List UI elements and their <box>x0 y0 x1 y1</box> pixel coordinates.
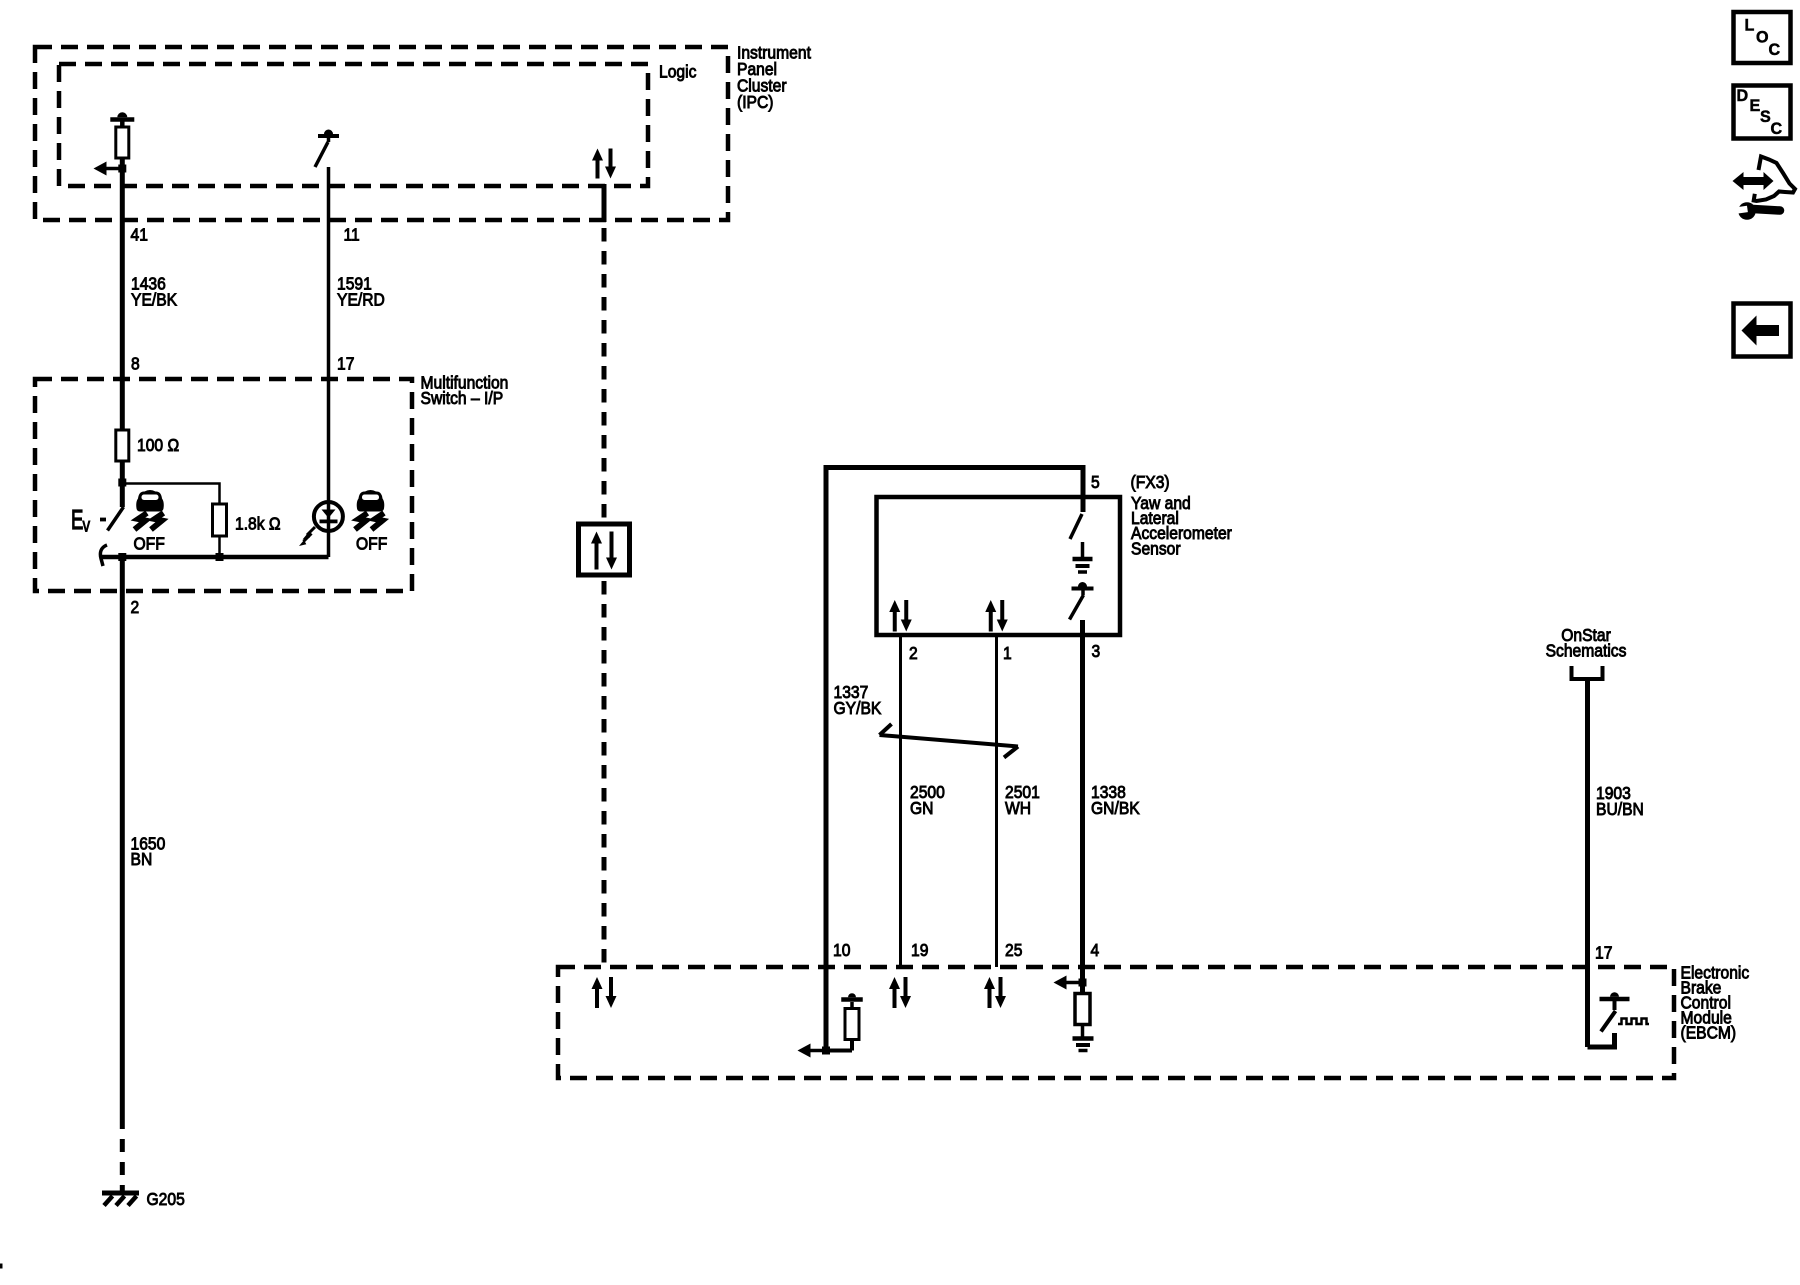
svg-text:OFF: OFF <box>134 533 165 553</box>
svg-text:E: E <box>1750 96 1761 115</box>
LED to bottom rail <box>327 531 331 557</box>
svg-text:L: L <box>1745 15 1755 34</box>
svg-text:19: 19 <box>911 940 928 960</box>
svg-text:Schematics: Schematics <box>1546 640 1627 660</box>
PWM squiggle <box>1618 1019 1649 1025</box>
svg-text:GN: GN <box>910 798 933 818</box>
in-line connector box with data arrows <box>579 524 630 575</box>
resistor R-IPC (indicator driver) <box>116 127 129 158</box>
bottom rail wire <box>101 555 329 560</box>
LED indicator <box>314 502 343 531</box>
svg-text:C: C <box>1771 119 1783 138</box>
EBCM serial data arrows <box>595 987 599 1008</box>
svg-text:Switch – I/P: Switch – I/P <box>421 388 504 408</box>
svg-text:GN/BK: GN/BK <box>1091 798 1140 818</box>
svg-text:11: 11 <box>344 224 360 244</box>
svg-text:17: 17 <box>337 353 354 373</box>
svg-text:(FX3): (FX3) <box>1131 472 1170 492</box>
svg-text:(IPC): (IPC) <box>737 92 774 112</box>
svg-text:WH: WH <box>1005 798 1031 818</box>
twisted pair crossover arrow <box>880 735 1019 747</box>
svg-text:1: 1 <box>1003 643 1012 663</box>
resistor 100 ohm <box>120 379 125 430</box>
traction OFF switch lever <box>108 507 124 531</box>
wiring repair icon: double arrow <box>1741 177 1766 185</box>
wire from logic box to IPC edge <box>602 184 607 222</box>
resistor 1.8k ohm <box>213 504 227 536</box>
wire 1.8k resistor to bottom rail <box>218 536 221 557</box>
wire 1650 BN <box>120 557 125 1128</box>
ground G205 <box>102 1191 139 1196</box>
svg-text:Logic: Logic <box>659 61 696 81</box>
Yaw sensor solid box <box>877 497 1121 635</box>
wiring repair icon: connector outline <box>1754 157 1795 202</box>
wire resistor to junction <box>120 158 125 220</box>
svg-text:100 Ω: 100 Ω <box>137 435 179 455</box>
IPC switch fixed contact (bar with bump) <box>318 134 339 138</box>
svg-text:17: 17 <box>1595 942 1612 962</box>
left arrow (signal out) in IPC <box>105 167 123 171</box>
yaw data arrows pin1 <box>989 610 993 632</box>
back arrow icon box <box>1734 304 1791 357</box>
svg-text:10: 10 <box>833 940 850 960</box>
serial data dashed wire (IPC to EBCM) <box>602 222 607 524</box>
LOC icon box <box>1734 12 1791 63</box>
wire pin 10 left run <box>824 465 829 967</box>
yaw internal switch lever (pin3) <box>1070 595 1084 620</box>
yaw internal contact (bar with bump) <box>1072 587 1094 591</box>
svg-text:4: 4 <box>1091 940 1100 960</box>
svg-text:GY/BK: GY/BK <box>834 698 883 718</box>
svg-text:O: O <box>1756 27 1769 46</box>
EBCM pins 19/25 data arrows <box>893 987 897 1008</box>
junction dot <box>118 165 126 173</box>
svg-text:C: C <box>1769 40 1781 59</box>
wire 2500 GN <box>899 635 902 967</box>
svg-text:S: S <box>1760 107 1771 126</box>
dashed lead to ground <box>120 1128 125 1191</box>
EBCM pin17 PWM switch <box>1588 1033 1615 1047</box>
svg-text:25: 25 <box>1005 940 1022 960</box>
svg-text:(EBCM): (EBCM) <box>1681 1022 1737 1042</box>
wire stub B+ to resistor R-IPC <box>120 120 125 128</box>
yaw internal switch lever (pin5) <box>1070 514 1082 539</box>
wire 1591 YE/RD (IPC 11 to MFS 17) <box>327 167 331 502</box>
B+ voltage symbol (bar with bump) <box>110 117 134 122</box>
svg-text:41: 41 <box>131 224 148 244</box>
yaw data arrows pin2 <box>893 610 897 632</box>
serial data up/down arrows in IPC <box>596 159 600 179</box>
EBCM dashed box <box>558 967 1674 1078</box>
off-page connector bracket <box>1572 666 1603 679</box>
junction dot node <box>118 479 126 487</box>
Logic dashed box <box>59 64 648 186</box>
IPC switch lever <box>315 142 328 167</box>
DESC icon box <box>1734 86 1791 139</box>
EBCM pin10 circuit <box>824 967 829 1051</box>
svg-text:BU/BN: BU/BN <box>1596 799 1644 819</box>
Multifunction Switch - I/P dashed box <box>35 379 412 591</box>
wire 1903 BU/BN <box>1585 679 1590 1047</box>
svg-text:1.8k Ω: 1.8k Ω <box>235 513 281 533</box>
wire resistor to junction node <box>120 461 125 507</box>
IPC switch stub <box>327 136 331 142</box>
svg-text:Sensor: Sensor <box>1131 538 1181 558</box>
svg-text:2: 2 <box>131 597 140 617</box>
EBCM pin4 circuit <box>1080 967 1085 994</box>
wire pin5 top run <box>826 465 1083 470</box>
svg-text:E: E <box>71 505 83 536</box>
yaw internal signal ground <box>1081 542 1085 557</box>
LED emission arrows <box>307 527 315 535</box>
svg-text:2: 2 <box>909 643 918 663</box>
svg-text:BN: BN <box>131 849 153 869</box>
traction control icon 2 <box>355 490 384 530</box>
svg-text:5: 5 <box>1091 472 1100 492</box>
svg-text:YE/BK: YE/BK <box>131 289 178 309</box>
svg-text:G205: G205 <box>147 1189 185 1209</box>
wire 1338 GN/BK <box>1080 635 1085 967</box>
svg-text:v: v <box>83 514 91 536</box>
switch linkage dash <box>100 518 106 522</box>
svg-text:YE/RD: YE/RD <box>337 289 385 309</box>
svg-text:8: 8 <box>131 353 140 373</box>
wiring repair icon: wrench <box>1753 209 1780 211</box>
pin17 switch lever <box>1601 1011 1616 1032</box>
svg-text:D: D <box>1737 86 1749 105</box>
page artifact dot <box>0 1264 3 1269</box>
traction control icon 1 (car with skid marks) <box>135 490 164 530</box>
wire 2501 WH <box>995 635 998 967</box>
svg-text:OFF: OFF <box>356 533 387 553</box>
momentary spring hook <box>100 545 107 566</box>
svg-text:3: 3 <box>1092 641 1101 661</box>
Instrument Panel Cluster (IPC) dashed box <box>35 47 728 220</box>
wire 1436 YE/BK (IPC 41 to MFS 8) <box>120 220 125 379</box>
wire junction to 1.8k resistor <box>122 484 219 505</box>
